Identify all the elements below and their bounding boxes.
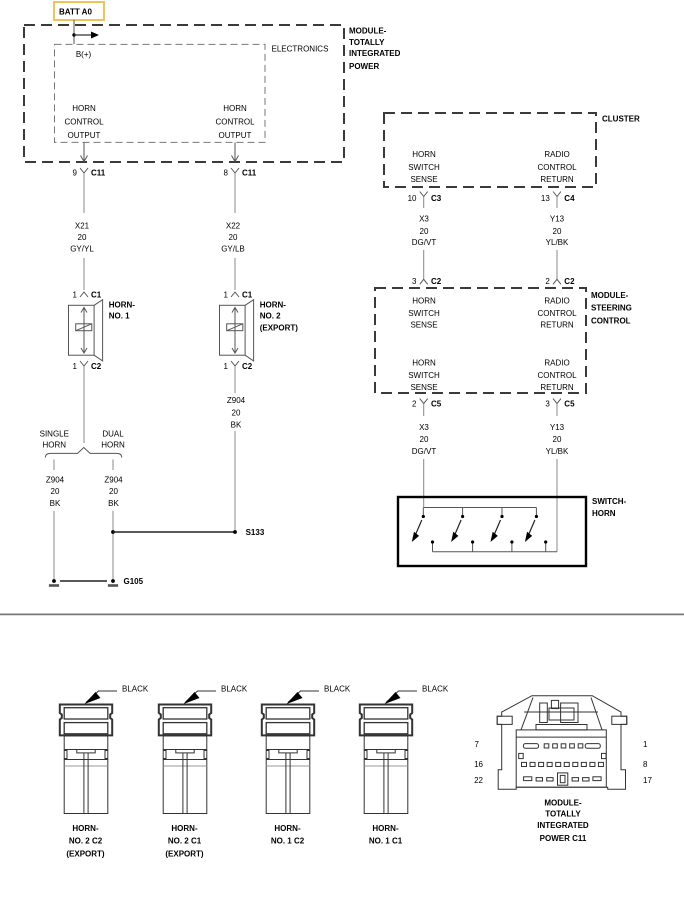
leader arrow BLACK (HORN- NO. 2 C1) [184,691,217,704]
switch pole 4 contact [545,543,547,552]
svg-text:HORN: HORN [412,359,436,368]
svg-text:SWITCH-: SWITCH- [592,497,627,506]
svg-text:20: 20 [229,233,238,242]
svg-text:20: 20 [420,227,429,236]
wire dual horn ground segment [112,511,114,581]
svg-text:CONTROL: CONTROL [591,316,631,325]
svg-text:13: 13 [541,194,550,203]
svg-text:POWER: POWER [349,62,379,71]
horn component HORN-NO. 1 [69,300,103,361]
svg-text:HORN-: HORN- [109,301,136,310]
svg-text:BK: BK [50,499,61,508]
connector C11 pin 9 [80,168,88,173]
switch pole 1 pivot [422,508,424,516]
svg-text:8: 8 [643,760,648,769]
connector C1 pin 1 of HORN-NO. 1 [80,292,88,297]
svg-text:CONTROL: CONTROL [537,309,577,318]
svg-text:X3: X3 [419,214,429,223]
wire X3 upper segment [423,197,425,209]
leader arrow BLACK (HORN- NO. 1 C1) [385,691,418,704]
svg-text:NO. 1 C2: NO. 1 C2 [271,836,305,845]
SWITCH-HORN box [398,497,586,566]
wire Y13 into horn switch [556,459,558,552]
wire from horn NO.1 C2 to split [83,366,85,443]
wire Y13 upper segment [556,197,558,209]
svg-text:RADIO: RADIO [544,150,569,159]
connector C5 pin 2 [420,399,428,404]
svg-text:SWITCH: SWITCH [408,163,440,172]
wire Y13 to steering module [556,250,558,270]
svg-text:HORN: HORN [43,441,67,450]
svg-text:(EXPORT): (EXPORT) [260,323,299,332]
svg-text:20: 20 [109,487,118,496]
svg-text:CONTROL: CONTROL [537,163,577,172]
wire X3 below steering [423,404,425,416]
module TIPM outer dashed box [24,25,344,162]
svg-text:RETURN: RETURN [540,320,574,329]
wire X3 into horn switch [423,459,425,508]
svg-text:1: 1 [73,291,78,300]
wire Y13 below steering [556,404,558,416]
horn component HORN-NO. 2 [220,300,254,361]
svg-text:8: 8 [224,168,229,177]
svg-text:INTEGRATED: INTEGRATED [537,821,589,830]
connector C11 pin 8 [231,168,239,173]
svg-text:B(+): B(+) [76,50,92,59]
wire X21 lower segment [83,258,85,290]
wire X22 upper segment [234,173,236,213]
svg-text:HORN-: HORN- [171,824,198,833]
connector C2 pin 3 (steering) [423,270,425,279]
svg-text:(EXPORT): (EXPORT) [66,849,105,858]
switch pole 3 contact [511,543,513,552]
leader arrow BLACK (HORN- NO. 1 C2) [287,691,320,704]
splice S133 [111,530,115,534]
svg-text:OUTPUT: OUTPUT [219,131,252,140]
svg-text:C5: C5 [564,400,575,409]
battery feed label BATT A0 [54,2,104,20]
svg-text:SENSE: SENSE [410,320,437,329]
switch pole 2 contact [472,543,474,552]
connector illustration HORN- NO. 1 C2 [262,705,314,814]
ground G105 [52,579,56,583]
CLUSTER dashed box [384,113,596,187]
svg-text:DUAL: DUAL [102,429,124,438]
svg-text:C11: C11 [242,168,257,177]
svg-text:C2: C2 [242,362,253,371]
svg-text:BATT A0: BATT A0 [59,8,92,17]
svg-text:Z904: Z904 [46,476,65,485]
svg-text:CONTROL: CONTROL [64,118,104,127]
horn switch top bus [424,507,537,509]
svg-text:BLACK: BLACK [422,685,449,694]
harness split brace [45,448,121,458]
svg-text:1: 1 [224,291,229,300]
svg-text:GY/LB: GY/LB [221,245,245,254]
svg-text:1: 1 [73,362,78,371]
svg-text:RADIO: RADIO [544,359,569,368]
svg-text:16: 16 [474,760,483,769]
svg-text:3: 3 [412,277,417,286]
svg-text:C2: C2 [564,277,575,286]
MODULE-STEERING CONTROL dashed box [375,288,586,393]
svg-text:7: 7 [475,740,480,749]
switch pole 4 blade [529,520,535,534]
connector C2 pin 1 of horn NO. 2 [231,361,239,366]
svg-text:SINGLE: SINGLE [40,429,69,438]
svg-text:BLACK: BLACK [122,685,149,694]
svg-text:1: 1 [643,740,648,749]
svg-text:YL/BK: YL/BK [546,447,569,456]
svg-text:CONTROL: CONTROL [537,371,577,380]
wire X21 upper segment [83,173,85,213]
svg-text:20: 20 [553,435,562,444]
svg-text:BLACK: BLACK [324,685,351,694]
svg-text:Z904: Z904 [227,396,246,405]
svg-text:HORN-: HORN- [260,301,287,310]
switch pole 1 contact [432,543,434,552]
svg-text:NO. 2: NO. 2 [260,312,281,321]
node junction on B(+) feed [72,33,75,36]
connector C2 pin 1 of horn NO. 1 [80,361,88,366]
svg-text:20: 20 [51,487,60,496]
svg-text:G105: G105 [124,577,144,586]
svg-text:HORN: HORN [412,150,436,159]
svg-text:Y13: Y13 [550,214,565,223]
svg-text:TOTALLY: TOTALLY [349,38,385,47]
svg-text:C1: C1 [91,291,102,300]
connector C1 pin 1 of HORN-NO. 2 [231,292,239,297]
switch pole 3 blade [495,520,501,534]
svg-text:20: 20 [553,227,562,236]
svg-text:INTEGRATED: INTEGRATED [349,49,401,58]
svg-text:YL/BK: YL/BK [546,238,569,247]
svg-text:X21: X21 [75,222,90,231]
svg-text:SENSE: SENSE [410,383,437,392]
svg-text:POWER C11: POWER C11 [540,834,587,843]
svg-text:2: 2 [545,277,550,286]
svg-text:9: 9 [73,168,78,177]
switch pole 1 blade [416,520,422,534]
svg-text:C11: C11 [91,168,106,177]
svg-text:NO. 1: NO. 1 [109,312,130,321]
svg-text:BK: BK [231,420,242,429]
svg-text:20: 20 [232,408,241,417]
wire Z904 lower segment to splice S133 [234,431,236,532]
wire single horn ground segment [53,511,55,580]
svg-text:10: 10 [408,194,417,203]
wire stub single horn [53,460,55,471]
svg-text:20: 20 [78,233,87,242]
svg-text:HORN: HORN [223,104,247,113]
svg-text:DG/VT: DG/VT [412,238,437,247]
svg-text:2: 2 [412,400,417,409]
svg-text:NO. 2 C1: NO. 2 C1 [168,836,202,845]
connector illustration HORN- NO. 2 C2 [60,705,112,814]
svg-text:MODULE-: MODULE- [544,798,582,807]
connector C2 pin 2 (steering) [556,270,558,279]
svg-text:HORN: HORN [101,441,125,450]
connector illustration HORN- NO. 1 C1 [360,705,412,814]
svg-text:TOTALLY: TOTALLY [545,809,581,818]
svg-text:DG/VT: DG/VT [412,447,437,456]
arrow B(+) feed [74,34,94,36]
svg-text:HORN: HORN [592,509,616,518]
svg-text:X3: X3 [419,423,429,432]
svg-text:HORN: HORN [72,104,96,113]
svg-text:SENSE: SENSE [410,175,437,184]
svg-text:Z904: Z904 [104,476,123,485]
svg-text:BLACK: BLACK [221,685,248,694]
svg-text:RADIO: RADIO [544,297,569,306]
connector C5 pin 3 [553,399,561,404]
svg-text:S133: S133 [246,528,265,537]
svg-text:X22: X22 [226,222,241,231]
connector C4 pin 13 [553,192,561,197]
svg-text:(EXPORT): (EXPORT) [165,849,204,858]
svg-text:Y13: Y13 [550,423,565,432]
connector C3 pin 10 [420,192,428,197]
svg-text:C3: C3 [431,194,442,203]
wire Z904 from horn NO.2 upper segment [234,366,236,393]
connector illustration MODULE-TOTALLY INTEGRATED POWER C11 [497,696,627,790]
svg-text:3: 3 [545,400,550,409]
svg-text:22: 22 [474,776,483,785]
wire output 8 with arrow [234,143,236,162]
switch pole 4 pivot [535,508,537,516]
switch pole 3 pivot [501,508,503,516]
leader arrow BLACK (HORN- NO. 2 C2) [85,691,118,704]
svg-text:C2: C2 [91,362,102,371]
svg-text:HORN-: HORN- [274,824,301,833]
wire X3 to steering module [423,250,425,270]
svg-text:HORN-: HORN- [372,824,399,833]
svg-text:SWITCH: SWITCH [408,309,440,318]
svg-text:HORN-: HORN- [72,824,99,833]
ELECTRONICS inner dashed box [55,44,266,142]
svg-text:C2: C2 [431,277,442,286]
section separator line [0,613,684,615]
svg-text:NO. 1 C1: NO. 1 C1 [369,836,403,845]
svg-text:BK: BK [108,499,119,508]
wire output 9 with arrow [83,143,85,162]
svg-text:MODULE-: MODULE- [591,291,629,300]
svg-text:HORN: HORN [412,297,436,306]
svg-text:SWITCH: SWITCH [408,371,440,380]
svg-text:1: 1 [224,362,229,371]
horn switch bottom bus [433,551,558,553]
svg-text:NO. 2 C2: NO. 2 C2 [69,836,103,845]
switch pole 2 blade [455,520,461,534]
svg-text:OUTPUT: OUTPUT [68,131,101,140]
wire from BATT A0 into module [73,20,75,44]
svg-text:GY/YL: GY/YL [70,245,94,254]
connector illustration HORN- NO. 2 C1 [159,705,211,814]
svg-text:CLUSTER: CLUSTER [602,114,640,123]
svg-text:STEERING: STEERING [591,304,632,313]
svg-text:RETURN: RETURN [540,383,574,392]
svg-text:CONTROL: CONTROL [215,118,255,127]
svg-text:C4: C4 [564,194,575,203]
svg-text:ELECTRONICS: ELECTRONICS [272,45,329,54]
svg-text:17: 17 [643,776,652,785]
wire X22 lower segment [234,258,236,290]
svg-text:C1: C1 [242,291,253,300]
wire stub dual horn [112,460,114,471]
switch pole 2 pivot [462,508,464,516]
svg-text:RETURN: RETURN [540,175,574,184]
svg-text:MODULE-: MODULE- [349,26,387,35]
svg-text:20: 20 [420,435,429,444]
svg-text:C5: C5 [431,400,442,409]
